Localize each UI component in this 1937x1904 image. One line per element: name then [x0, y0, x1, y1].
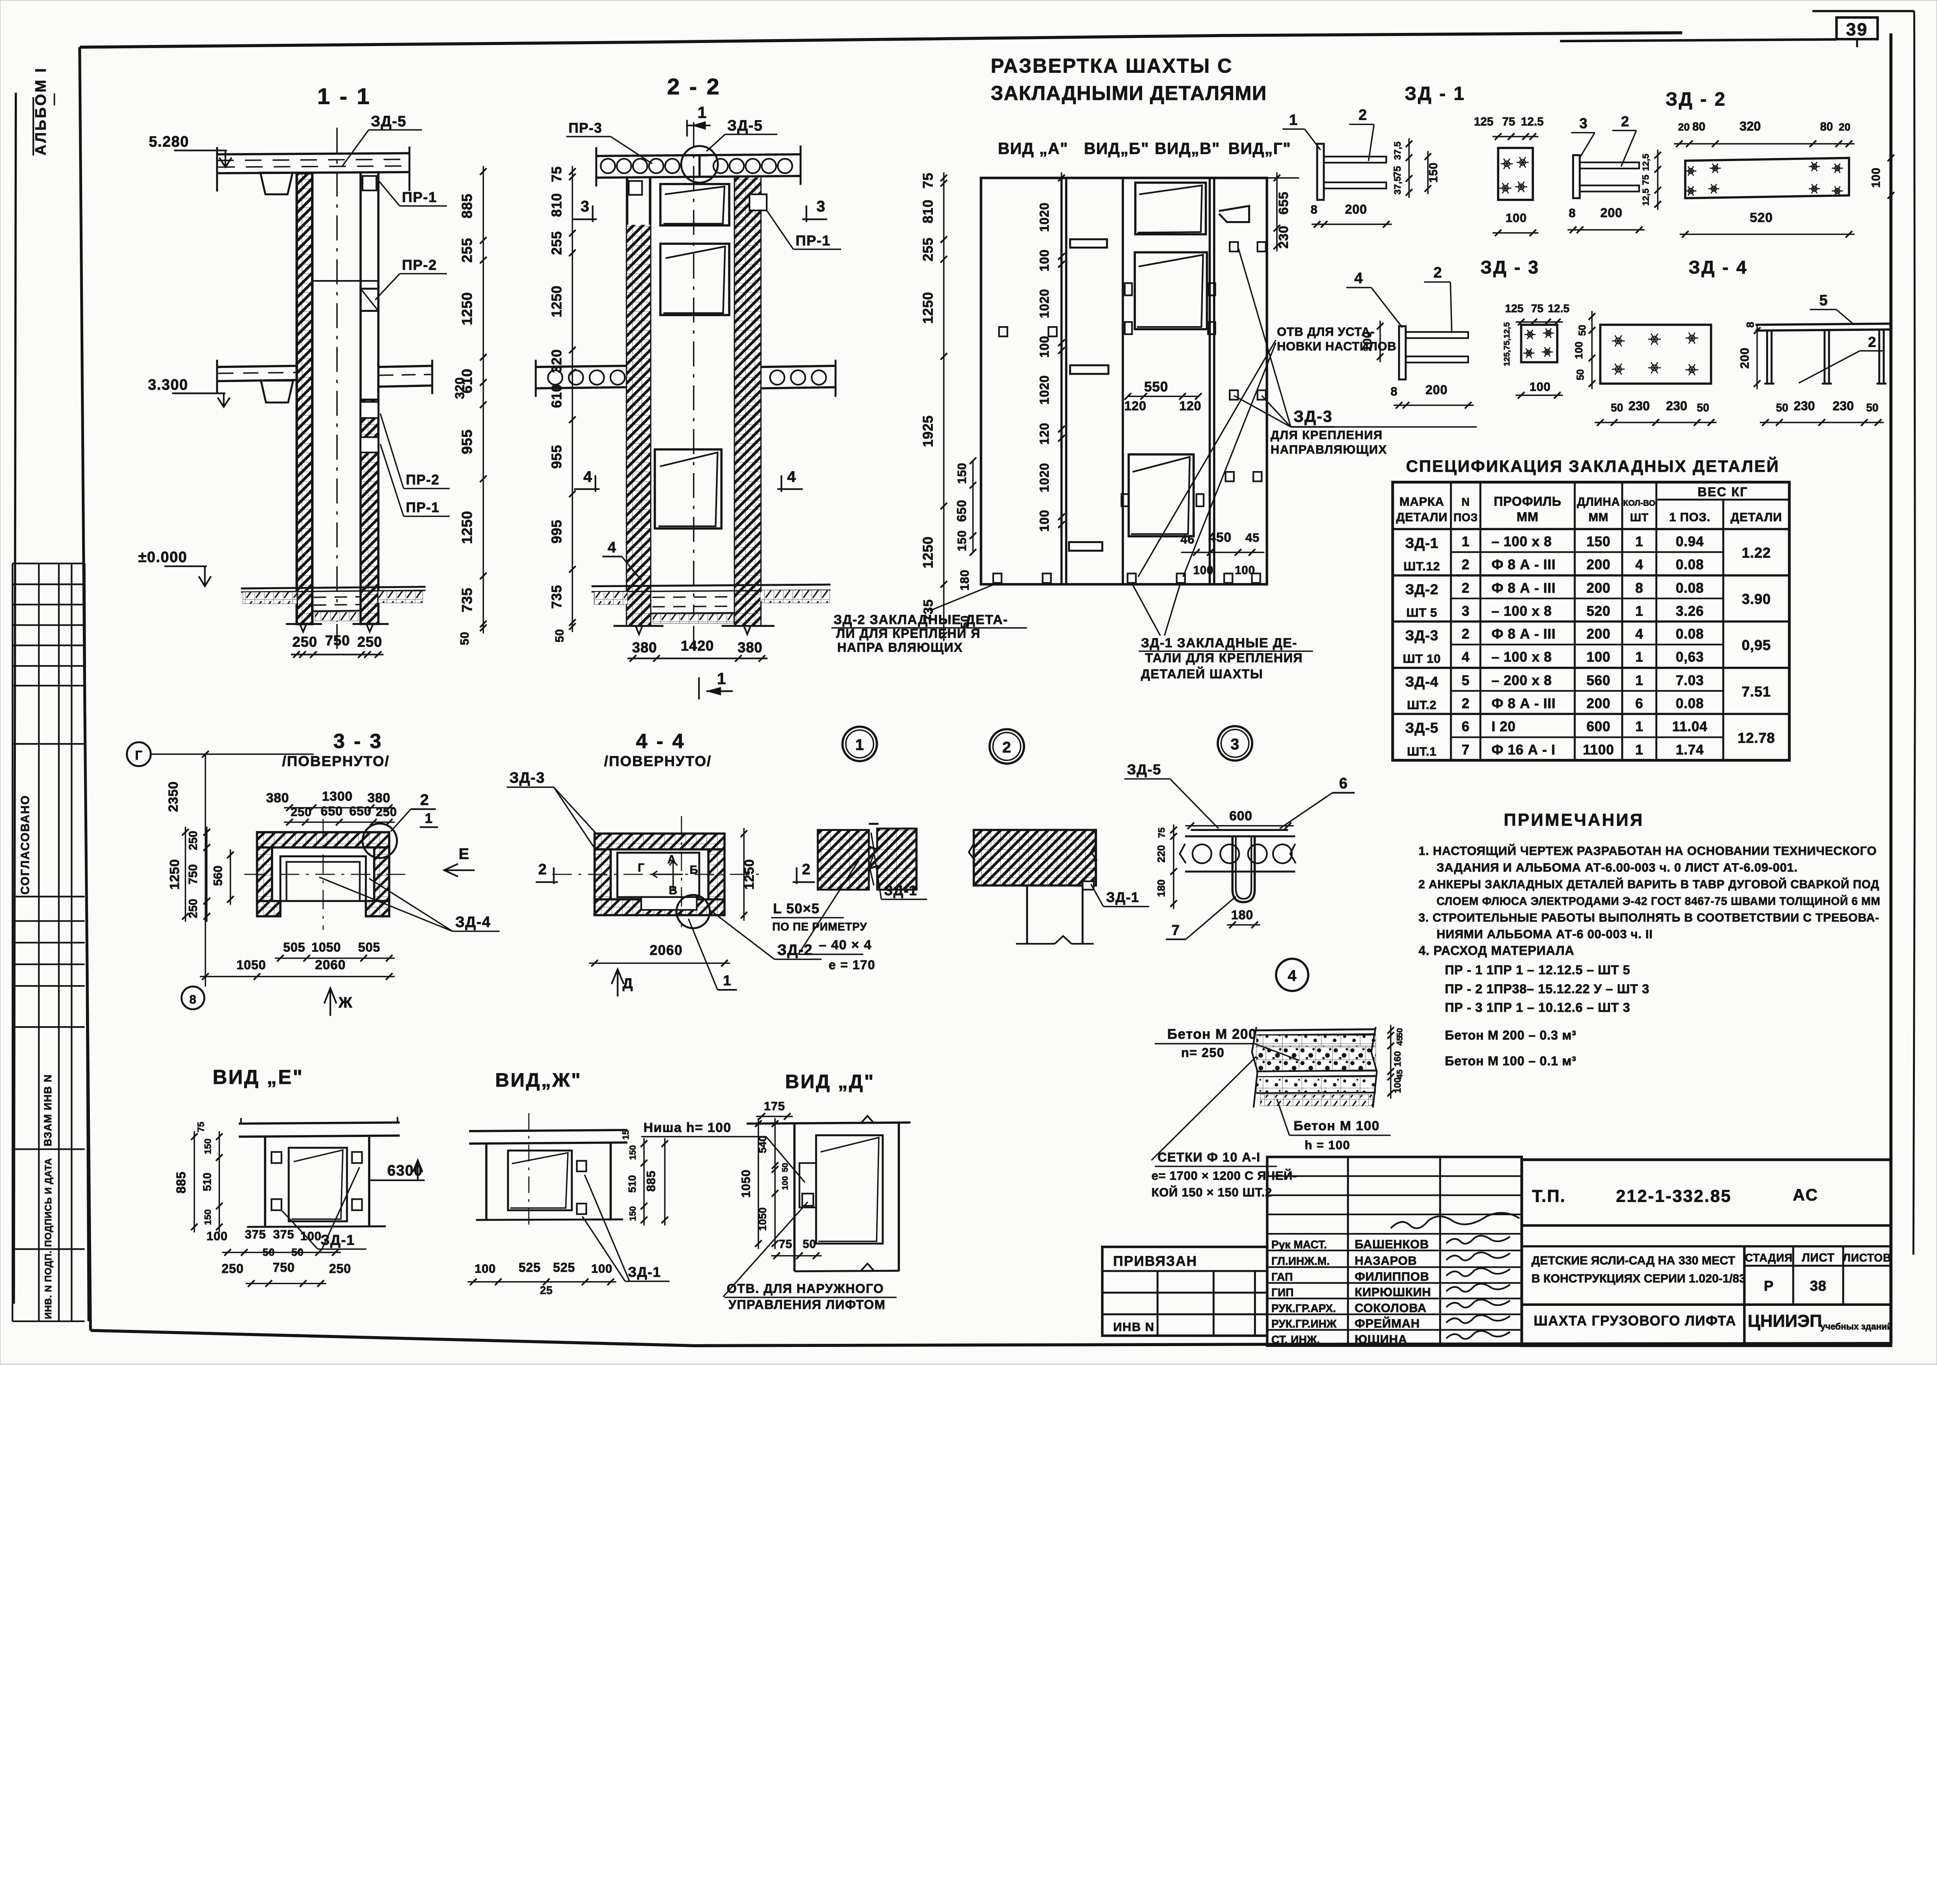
svg-text:75: 75: [920, 172, 936, 188]
svg-text:3: 3: [1230, 736, 1239, 753]
section 2-2 bottom dims 380 1420 380: [627, 657, 767, 660]
svg-text:50: 50: [781, 1163, 790, 1172]
svg-text:±0.000: ±0.000: [138, 549, 188, 566]
svg-text:7.51: 7.51: [1742, 683, 1771, 700]
lintel PR-1 top: [363, 176, 377, 190]
svg-text:650: 650: [955, 500, 969, 522]
svg-text:100: 100: [1529, 380, 1551, 394]
horizontal ledge line in shaft: [312, 280, 378, 282]
ZD-3 plate face view: [1521, 325, 1557, 362]
view Zh drawing: [469, 1130, 627, 1131]
svg-text:ОТВ. ДЛЯ НАРУЖНОГО: ОТВ. ДЛЯ НАРУЖНОГО: [727, 1281, 884, 1296]
svg-text:0,63: 0,63: [1676, 649, 1704, 665]
svg-text:80: 80: [1692, 120, 1705, 133]
svg-text:1: 1: [855, 736, 864, 753]
svg-text:1: 1: [1635, 719, 1643, 734]
svg-text:ЗД-5: ЗД-5: [1405, 720, 1438, 736]
svg-text:e = 170: e = 170: [829, 958, 876, 972]
svg-text:НОВКИ НАСТИЛОВ: НОВКИ НАСТИЛОВ: [1277, 339, 1397, 353]
view D door: [816, 1135, 883, 1244]
lintel PR-2 block: [361, 289, 378, 311]
svg-text:50: 50: [1575, 369, 1586, 380]
svg-text:75: 75: [1641, 175, 1651, 185]
svg-text:200: 200: [1586, 557, 1610, 573]
svg-text:75: 75: [196, 1122, 206, 1132]
detail circle 4: [1276, 959, 1308, 991]
svg-text:100: 100: [1037, 335, 1051, 358]
svg-text:ВИД„В": ВИД„В": [1155, 139, 1220, 158]
svg-text:– 100 x 8: – 100 x 8: [1491, 534, 1552, 549]
svg-text:4: 4: [1635, 626, 1643, 642]
svg-text:180: 180: [1155, 879, 1167, 897]
svg-text:1: 1: [1635, 649, 1643, 665]
view D niche rect: [800, 1163, 816, 1207]
axis circle G: [127, 742, 151, 766]
svg-text:150: 150: [203, 1139, 213, 1154]
svg-text:1: 1: [717, 669, 727, 688]
svg-text:НАПРА ВЛЯЮЩИХ: НАПРА ВЛЯЮЩИХ: [837, 640, 963, 654]
svg-text:1 ПОЗ.: 1 ПОЗ.: [1669, 510, 1710, 524]
svg-text:ШАХТА ГРУЗОВОГО ЛИФТА: ШАХТА ГРУЗОВОГО ЛИФТА: [1534, 1313, 1736, 1328]
svg-text:Ф 8 А - III: Ф 8 А - III: [1491, 557, 1556, 573]
svg-text:50: 50: [459, 632, 471, 645]
section 1-1 bottom dims 250 750 250: [291, 654, 384, 656]
plan 3-3 left chains: [206, 827, 208, 922]
svg-text:750: 750: [273, 1260, 295, 1274]
svg-text:250: 250: [376, 805, 397, 819]
svg-text:100: 100: [300, 1229, 322, 1243]
svg-text:1250: 1250: [920, 537, 936, 569]
svg-text:3 - 3: 3 - 3: [334, 730, 383, 753]
ZD-1 T anchor side view: [1573, 155, 1580, 198]
svg-text:100: 100: [475, 1261, 496, 1275]
svg-text:А: А: [667, 853, 676, 866]
section 1-1 middle slab left: [217, 366, 297, 367]
svg-text:8: 8: [1635, 580, 1643, 596]
svg-text:0.08: 0.08: [1676, 696, 1704, 711]
svg-text:ЗД-4: ЗД-4: [1405, 674, 1438, 690]
svg-text:ДЕТАЛЕЙ ШАХТЫ: ДЕТАЛЕЙ ШАХТЫ: [1141, 666, 1263, 681]
svg-text:ДЛЯ КРЕПЛЕНИЯ: ДЛЯ КРЕПЛЕНИЯ: [1271, 428, 1383, 442]
svg-text:3: 3: [1579, 115, 1588, 131]
svg-text:810: 810: [920, 200, 936, 224]
svg-text:ЗД-1: ЗД-1: [628, 1264, 661, 1280]
svg-text:150: 150: [1586, 534, 1610, 549]
svg-text:ЗД-1: ЗД-1: [884, 883, 917, 898]
svg-text:ШТ 10: ШТ 10: [1403, 652, 1441, 666]
svg-text:75: 75: [1157, 827, 1167, 838]
svg-text:4: 4: [583, 468, 593, 485]
section 2-2 left dimension chain: [571, 166, 573, 632]
svg-text:3: 3: [1462, 603, 1470, 619]
svg-text:12,5: 12,5: [1641, 154, 1651, 171]
svg-text:ПОЗ: ПОЗ: [1454, 512, 1478, 524]
svg-text:n= 250: n= 250: [1181, 1046, 1225, 1060]
svg-text:ИНВ N: ИНВ N: [1113, 1320, 1154, 1334]
section 1-1 middle slab right: [378, 366, 432, 367]
svg-text:8: 8: [1390, 384, 1397, 398]
svg-text:6: 6: [1462, 719, 1470, 734]
plan 3-3 inner pit: [280, 857, 366, 901]
svg-text:4: 4: [1288, 967, 1297, 984]
svg-text:ПР-2: ПР-2: [402, 256, 437, 273]
svg-text:230: 230: [1794, 399, 1815, 413]
svg-text:ВИД„Ж": ВИД„Ж": [495, 1069, 582, 1091]
svg-text:50: 50: [1776, 402, 1788, 414]
svg-text:50: 50: [1697, 402, 1709, 414]
svg-text:1: 1: [1635, 603, 1643, 619]
svg-text:1420: 1420: [681, 638, 714, 654]
svg-text:2: 2: [1621, 113, 1629, 129]
svg-text:250: 250: [291, 805, 312, 819]
svg-text:380: 380: [632, 639, 657, 655]
svg-text:200: 200: [1737, 347, 1751, 369]
detail 2 drawing: [974, 830, 1096, 885]
svg-text:ВЕС КГ: ВЕС КГ: [1698, 485, 1748, 499]
svg-text:ЗД-5: ЗД-5: [727, 117, 763, 134]
svg-text:7: 7: [1462, 742, 1470, 758]
svg-text:450: 450: [1208, 530, 1232, 545]
ZD-2 plate: [1685, 158, 1849, 198]
svg-text:Бетон М 100 – 0: Бетон М 100 – 0.1 м³: [1445, 1054, 1576, 1068]
section 1-1 centerline: [336, 128, 338, 622]
svg-text:230: 230: [1832, 399, 1854, 413]
svg-text:160: 160: [1393, 1051, 1403, 1067]
svg-text:510: 510: [201, 1173, 214, 1191]
svg-text:520: 520: [1586, 603, 1610, 619]
section 1-1 left wall hatched: [297, 173, 312, 624]
svg-text:СОКОЛОВА: СОКОЛОВА: [1355, 1301, 1427, 1315]
svg-text:20: 20: [1839, 121, 1850, 133]
svg-text:СОГЛАСОВАНО: СОГЛАСОВАНО: [19, 795, 32, 895]
svg-text:650: 650: [349, 804, 371, 818]
detail 4 drawing: floor build-up: [1256, 1029, 1376, 1030]
svg-text:Т.П.: Т.П.: [1532, 1187, 1566, 1206]
detail circle 1: [843, 727, 877, 761]
svg-text:5: 5: [1819, 292, 1828, 309]
ZD-1 side dims: [1408, 138, 1410, 198]
section 2-2 left wall hatched: [625, 178, 629, 626]
svg-text:3.300: 3.300: [148, 377, 188, 393]
detail circle 2: [989, 729, 1024, 764]
svg-text:2: 2: [1002, 739, 1011, 756]
svg-text:50: 50: [1611, 402, 1623, 414]
svg-text:ТАЛИ ДЛЯ КРЕПЛЕНИЯ: ТАЛИ ДЛЯ КРЕПЛЕНИЯ: [1145, 651, 1303, 665]
svg-text:1050: 1050: [739, 1170, 753, 1198]
svg-text:8: 8: [1744, 322, 1756, 328]
svg-text:ОТВ ДЛЯ УСТА-: ОТВ ДЛЯ УСТА-: [1277, 325, 1375, 339]
svg-text:1020: 1020: [1037, 375, 1051, 404]
svg-text:ВИД „Е": ВИД „Е": [213, 1066, 304, 1088]
svg-text:655: 655: [1276, 191, 1291, 215]
svg-text:560: 560: [211, 865, 225, 886]
svg-text:6: 6: [1635, 696, 1643, 711]
svg-text:ПР-1: ПР-1: [406, 500, 440, 515]
svg-text:1020: 1020: [1037, 463, 1051, 492]
svg-text:ЗД-2 ЗАКЛАДНЫЕ ДЕТА-: ЗД-2 ЗАКЛАДНЫЕ ДЕТА-: [834, 612, 1008, 627]
svg-text:735: 735: [549, 585, 564, 609]
svg-text:1020: 1020: [1037, 289, 1051, 318]
svg-text:39: 39: [1846, 19, 1868, 40]
svg-text:ЛИСТОВ: ЛИСТОВ: [1843, 1252, 1891, 1264]
svg-text:200: 200: [1426, 382, 1448, 397]
svg-text:ШТ.2: ШТ.2: [1407, 698, 1437, 712]
svg-text:ЗД-4: ЗД-4: [455, 914, 491, 931]
svg-text:12.5: 12.5: [1521, 115, 1544, 128]
svg-text:7.03: 7.03: [1676, 673, 1704, 688]
svg-text:ЗД - 3: ЗД - 3: [1480, 257, 1540, 278]
svg-text:7: 7: [1171, 922, 1180, 938]
svg-text:150: 150: [955, 463, 969, 484]
svg-text:885: 885: [644, 1170, 658, 1192]
svg-text:Ф 16 А - I: Ф 16 А - I: [1491, 742, 1555, 758]
svg-text:ВИД „Д": ВИД „Д": [785, 1071, 875, 1092]
svg-text:0.94: 0.94: [1676, 534, 1704, 549]
svg-text:ЛИ ДЛЯ КРЕПЛЕНИ Я: ЛИ ДЛЯ КРЕПЛЕНИ Я: [836, 626, 981, 641]
svg-text:380: 380: [266, 791, 289, 805]
svg-text:220: 220: [1155, 845, 1167, 862]
svg-text:15: 15: [621, 1130, 631, 1140]
spec table frame: [1393, 482, 1789, 760]
signatures squiggles: [1446, 1236, 1510, 1244]
svg-text:100: 100: [1037, 510, 1051, 532]
svg-text:/ПОВЕРНУТО/: /ПОВЕРНУТО/: [604, 753, 712, 769]
svg-text:ЗД - 4: ЗД - 4: [1689, 257, 1748, 278]
section 1-1 top slab: [217, 153, 409, 155]
PR-1 lintel right: [750, 194, 767, 211]
lintel PR-1 lower: [361, 437, 378, 452]
spec table row lines: [1451, 551, 1723, 553]
left margin vertical rule: [14, 93, 16, 1304]
lintel PR-2 lower: [361, 402, 378, 418]
svg-text:50: 50: [1866, 402, 1879, 414]
svg-text:250: 250: [292, 634, 317, 650]
svg-text:100: 100: [1235, 564, 1255, 577]
svg-text:2: 2: [420, 791, 429, 808]
svg-text:АС: АС: [1793, 1186, 1819, 1204]
ZD-4 plate 6 stars: [1600, 325, 1711, 384]
svg-text:РУК.ГР.АРХ.: РУК.ГР.АРХ.: [1271, 1302, 1336, 1315]
svg-text:СТ. ИНЖ.: СТ. ИНЖ.: [1271, 1334, 1320, 1346]
svg-text:255: 255: [920, 237, 936, 261]
svg-text:120: 120: [1124, 399, 1146, 413]
svg-text:375: 375: [273, 1227, 294, 1241]
svg-text:50: 50: [1577, 325, 1588, 336]
svg-text:1: 1: [1462, 534, 1470, 549]
svg-text:ПРОФИЛЬ: ПРОФИЛЬ: [1494, 494, 1562, 509]
svg-text:h = 100: h = 100: [1305, 1138, 1350, 1152]
svg-text:Р: Р: [1764, 1278, 1774, 1294]
svg-text:12.78: 12.78: [1737, 729, 1775, 746]
svg-text:1250: 1250: [459, 511, 475, 544]
svg-text:505: 505: [358, 940, 380, 954]
svg-text:3.90: 3.90: [1742, 591, 1771, 607]
svg-text:100: 100: [1361, 331, 1374, 351]
panel B shelf brackets: [1070, 239, 1107, 248]
svg-text:Ниша h= 100: Ниша h= 100: [643, 1120, 731, 1135]
svg-text:Г: Г: [135, 748, 143, 762]
left stamp strip tables: [11, 564, 14, 1321]
svg-text:МАРКА: МАРКА: [1399, 495, 1444, 509]
development door opening 2: [1135, 252, 1207, 329]
svg-text:1250: 1250: [920, 292, 936, 324]
svg-text:200: 200: [1600, 205, 1622, 220]
svg-text:150: 150: [203, 1209, 213, 1225]
svg-text:5.280: 5.280: [149, 133, 189, 150]
svg-text:1: 1: [1635, 742, 1643, 758]
svg-text:ЗД-3: ЗД-3: [1294, 407, 1333, 425]
svg-text:НИЯМИ АЛЬБОМА АТ-6 00-003 ч. I: НИЯМИ АЛЬБОМА АТ-6 00-003 ч. II: [1436, 927, 1653, 941]
svg-text:3: 3: [817, 198, 826, 215]
svg-text:учебных зданий: учебных зданий: [1820, 1321, 1892, 1331]
svg-text:2: 2: [1868, 334, 1877, 350]
svg-text:ПО ПЕ РИМЕТРУ: ПО ПЕ РИМЕТРУ: [772, 921, 867, 933]
section 2-2 ground: [592, 585, 831, 586]
svg-text:45: 45: [1245, 531, 1260, 545]
svg-text:75: 75: [549, 166, 564, 182]
svg-text:610: 610: [549, 384, 564, 408]
svg-text:1.74: 1.74: [1676, 742, 1704, 758]
svg-text:380: 380: [367, 791, 390, 805]
svg-text:КИРЮШКИН: КИРЮШКИН: [1355, 1285, 1431, 1299]
svg-text:4: 4: [607, 539, 616, 556]
svg-text:125: 125: [1474, 115, 1493, 128]
svg-text:25: 25: [540, 1284, 552, 1297]
svg-text:230: 230: [1276, 225, 1291, 249]
svg-text:В КОНСТРУКЦИЯХ СЕРИИ 1.020-: В КОНСТРУКЦИЯХ СЕРИИ 1.020-1/83: [1531, 1271, 1746, 1285]
svg-text:ФИЛИППОВ: ФИЛИППОВ: [1355, 1269, 1430, 1283]
svg-text:ЗД - 1: ЗД - 1: [1405, 83, 1466, 104]
svg-text:100: 100: [1393, 1077, 1403, 1093]
svg-text:38: 38: [1810, 1278, 1827, 1294]
svg-text:ЗД-2: ЗД-2: [1405, 581, 1438, 597]
svg-text:Ф 8 А - III: Ф 8 А - III: [1491, 580, 1556, 596]
svg-text:ЗАКЛАДНЫМИ ДЕТАЛЯМИ: ЗАКЛАДНЫМИ ДЕТАЛЯМИ: [991, 82, 1267, 104]
svg-text:150: 150: [1427, 162, 1440, 182]
svg-text:100: 100: [1037, 249, 1051, 272]
svg-text:ПР - 2 1ПР38– 15.12.22 У: ПР - 2 1ПР38– 15.12.22 У – ШТ 3: [1445, 982, 1650, 996]
svg-text:1050: 1050: [311, 940, 341, 954]
svg-text:ДЕТАЛИ: ДЕТАЛИ: [1731, 510, 1782, 524]
svg-text:4 - 4: 4 - 4: [636, 730, 686, 753]
plan 4-4 niche bottom: [641, 897, 697, 910]
plan 3-3 centerlines: [322, 819, 324, 930]
svg-text:– 40 × 4: – 40 × 4: [819, 938, 872, 953]
development door opening 3: [1128, 454, 1194, 536]
svg-text:1. НАСТОЯЩИЙ ЧЕРТЕЖ РАЗРАБОТАН: 1. НАСТОЯЩИЙ ЧЕРТЕЖ РАЗРАБОТАН НА ОСНОВА…: [1419, 844, 1877, 858]
svg-text:ЗД-2: ЗД-2: [777, 942, 813, 958]
svg-text:75: 75: [1531, 303, 1543, 315]
svg-text:2: 2: [538, 861, 547, 878]
svg-text:ВИД„Г": ВИД„Г": [1228, 139, 1291, 158]
svg-text:320: 320: [549, 349, 564, 373]
svg-text:3: 3: [581, 198, 590, 215]
svg-text:1020: 1020: [1037, 203, 1051, 232]
svg-text:380: 380: [738, 639, 762, 655]
svg-text:230: 230: [1666, 399, 1687, 413]
svg-text:600: 600: [1586, 719, 1610, 734]
detail circle 3: [1218, 726, 1252, 760]
svg-text:ПРИВЯЗАН: ПРИВЯЗАН: [1113, 1253, 1197, 1269]
svg-text:ЗД-1: ЗД-1: [1106, 890, 1139, 905]
detail 4 right dims: [1390, 1025, 1392, 1099]
svg-text:ПР-2: ПР-2: [406, 472, 440, 487]
svg-text:2 - 2: 2 - 2: [667, 74, 721, 100]
svg-text:50: 50: [803, 1238, 816, 1251]
svg-text:955: 955: [459, 429, 475, 454]
svg-text:ЗД - 2: ЗД - 2: [1665, 89, 1726, 110]
svg-text:320: 320: [1739, 119, 1761, 133]
svg-text:1: 1: [1635, 534, 1643, 549]
svg-text:4: 4: [1354, 270, 1363, 287]
svg-text:Бетон М 100: Бетон М 100: [1294, 1119, 1380, 1133]
plan 4-4 walls: [595, 834, 724, 850]
svg-text:100: 100: [591, 1261, 612, 1275]
svg-text:200: 200: [1586, 580, 1610, 596]
svg-text:1050: 1050: [236, 958, 266, 972]
svg-text:Е: Е: [459, 845, 470, 863]
svg-text:100: 100: [1870, 167, 1882, 187]
svg-text:Бетон М 200 – 0: Бетон М 200 – 0.3 м³: [1445, 1028, 1576, 1042]
svg-text:Рук МАСТ.: Рук МАСТ.: [1271, 1238, 1327, 1251]
svg-text:2: 2: [1462, 557, 1470, 573]
svg-text:ЗД-5: ЗД-5: [371, 113, 406, 130]
svg-text:1300: 1300: [322, 789, 353, 804]
svg-text:180: 180: [958, 569, 972, 591]
svg-text:180: 180: [1231, 908, 1253, 922]
svg-text:150: 150: [628, 1145, 638, 1160]
svg-text:4: 4: [1462, 649, 1470, 665]
section 2-2 top hollow slab: [596, 154, 800, 156]
svg-text:75: 75: [779, 1238, 792, 1251]
svg-text:ВИД„Б": ВИД„Б": [1084, 139, 1149, 158]
svg-text:0,95: 0,95: [1742, 637, 1771, 653]
svg-text:ЗД-1 ЗАКЛАДНЫЕ ДЕ-: ЗД-1 ЗАКЛАДНЫЕ ДЕ-: [1141, 636, 1297, 650]
svg-text:125: 125: [1505, 303, 1524, 315]
view Zh right dims: [643, 1138, 645, 1226]
svg-text:120: 120: [1037, 423, 1051, 445]
detail 1 drawing: [818, 829, 917, 890]
view E left dims: [193, 1131, 195, 1233]
svg-text:250: 250: [187, 899, 200, 918]
svg-text:/ПОВЕРНУТО/: /ПОВЕРНУТО/: [282, 753, 390, 769]
svg-text:2 АНКЕРЫ ЗАКЛАДНЫХ ДЕТАЛЕЙ ВА: 2 АНКЕРЫ ЗАКЛАДНЫХ ДЕТАЛЕЙ ВАРИТЬ В ТАВР…: [1419, 878, 1880, 891]
anchor squares center bottom: [1128, 573, 1136, 583]
svg-text:Ф 8 А - III: Ф 8 А - III: [1491, 696, 1556, 711]
svg-text:810: 810: [549, 193, 564, 217]
plan 3-3 walls: [257, 832, 389, 847]
svg-text:100: 100: [1193, 564, 1213, 577]
svg-text:ГАП: ГАП: [1271, 1271, 1293, 1283]
svg-text:L 50×5: L 50×5: [773, 901, 820, 916]
development right chain 655 230: [1276, 172, 1278, 251]
svg-text:50: 50: [554, 629, 566, 642]
svg-text:45: 45: [1395, 1036, 1404, 1046]
svg-text:120: 120: [1179, 399, 1201, 413]
svg-text:1: 1: [723, 972, 731, 989]
corner detail circle: [363, 824, 397, 858]
svg-text:ЗАДАНИЯ И АЛЬБОМА АТ-6.00-003: ЗАДАНИЯ И АЛЬБОМА АТ-6.00-003 ч. 0 ЛИСТ …: [1436, 860, 1798, 874]
ZD-5 anchor detail circle on slab: [681, 146, 718, 183]
svg-text:ИНВ. N ПОДП.: ИНВ. N ПОДП.: [43, 1250, 54, 1319]
svg-text:2: 2: [1462, 626, 1470, 642]
svg-text:2: 2: [802, 861, 811, 878]
svg-text:ЗД-3: ЗД-3: [1405, 627, 1438, 643]
svg-text:230: 230: [1629, 399, 1650, 413]
svg-text:255: 255: [459, 238, 475, 263]
view D drawing: [747, 1123, 910, 1124]
svg-text:250: 250: [222, 1261, 244, 1276]
